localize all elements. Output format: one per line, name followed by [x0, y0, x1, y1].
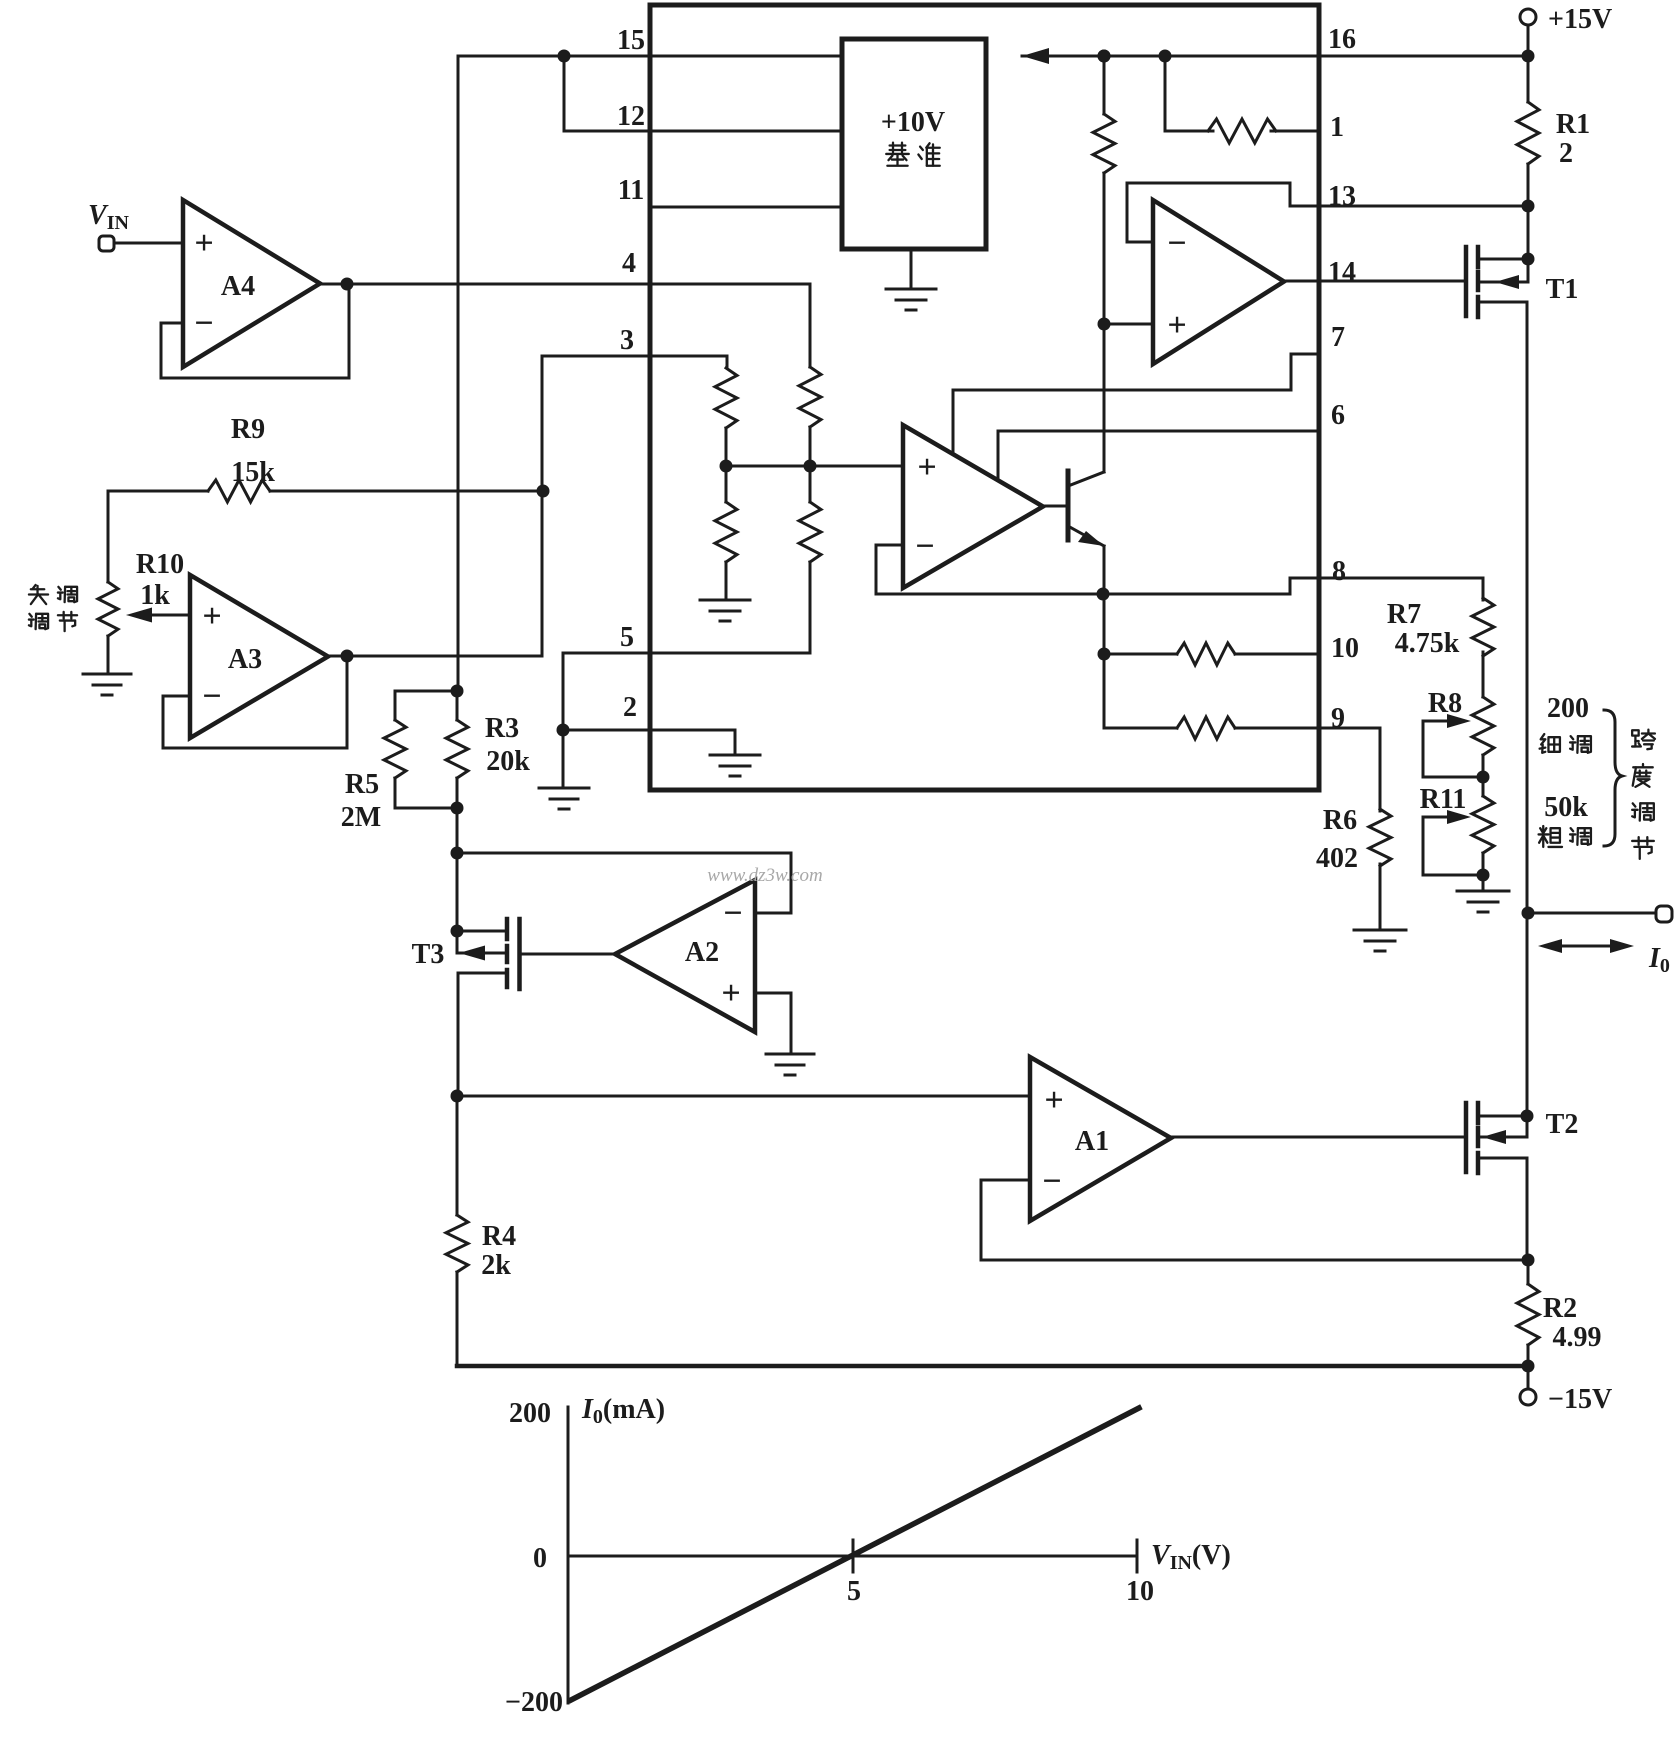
R11 wiper	[1423, 810, 1483, 875]
wire A4 output row (pin 4 net)	[320, 283, 810, 286]
resistor R1	[1517, 102, 1539, 164]
svg-text:A1: A1	[1075, 1126, 1109, 1157]
wire pin 11 row	[650, 206, 842, 209]
svg-text:R10: R10	[136, 549, 184, 580]
wire T2 source	[1478, 1158, 1527, 1260]
svg-text:−: −	[202, 678, 221, 715]
wire R9 right to node	[270, 490, 543, 493]
pin 16 label	[1328, 24, 1356, 55]
wire R2 top	[1527, 1260, 1530, 1284]
T1 body arrow	[1478, 275, 1528, 289]
svg-text:10: 10	[1331, 633, 1359, 664]
wire R4 top	[456, 1096, 459, 1215]
label R5	[345, 769, 379, 800]
resistor internal (pin 10)	[1177, 643, 1235, 665]
op-amp A2	[615, 880, 755, 1032]
label R4 value 2k	[481, 1250, 511, 1281]
graph tick 10	[1136, 1540, 1139, 1572]
junction error amp + input	[1098, 318, 1111, 331]
junction pin16-pin1	[1159, 50, 1172, 63]
wire pin 7 net	[953, 354, 1319, 452]
svg-text:12: 12	[617, 101, 645, 132]
svg-text:15k: 15k	[231, 457, 275, 488]
wire T1 drain stub	[1478, 258, 1528, 261]
ground (R6)	[1354, 930, 1406, 951]
svg-text:2: 2	[623, 692, 637, 723]
svg-text:R11: R11	[1420, 784, 1467, 815]
wire R6 ground stub	[1379, 864, 1382, 928]
svg-text:−200: −200	[505, 1687, 563, 1718]
wire upper op-amp feedback	[1127, 183, 1290, 242]
wire pin 1 branch	[1165, 56, 1213, 131]
op-amp A3	[190, 575, 328, 738]
svg-text:50k: 50k	[1544, 792, 1588, 823]
label R1	[1556, 109, 1590, 140]
junction pin16-busA	[1098, 50, 1111, 63]
wire A3 output to pin3 riser	[328, 356, 727, 656]
label R10	[136, 549, 184, 580]
pin 5 label	[620, 622, 634, 653]
T2 body arrow	[1478, 1130, 1527, 1144]
pin 4 label	[622, 248, 636, 279]
junction pin 13 node	[1522, 200, 1535, 213]
label ji-zhun (reference)	[886, 143, 940, 166]
svg-text:20k: 20k	[486, 746, 530, 777]
resistor R4	[446, 1215, 468, 1272]
wire A4 feedback	[161, 284, 349, 378]
svg-text:VIN: VIN	[88, 200, 129, 234]
svg-text:−: −	[915, 528, 934, 565]
ground (internal divider)	[700, 600, 750, 621]
svg-text:−15V: −15V	[1548, 1384, 1612, 1415]
wire pin 8 row	[876, 578, 1483, 594]
wire pin 9 row	[1104, 727, 1177, 730]
wire A1 + row	[457, 1095, 1030, 1098]
wire pin 8 to R7	[1482, 578, 1485, 600]
pin 14 label	[1328, 257, 1356, 288]
wire A1 feedback	[981, 1180, 1528, 1260]
op-amp A1	[1030, 1057, 1171, 1221]
terminal -15V	[1520, 1389, 1536, 1405]
junction pin 2 node	[557, 724, 570, 737]
pin 2 label	[623, 692, 637, 723]
label I0	[1648, 943, 1670, 977]
wire +10V ref ground stub	[910, 249, 913, 288]
wire pin2 node ground stub	[562, 730, 565, 787]
svg-text:A3: A3	[228, 644, 262, 675]
resistor R9	[208, 480, 270, 502]
svg-text:R1: R1	[1556, 109, 1590, 140]
junction R8 bottom	[1477, 771, 1490, 784]
wire T1 source	[1478, 302, 1527, 912]
op-amp internal error amplifier	[903, 425, 1043, 588]
svg-text:2M: 2M	[341, 802, 381, 833]
ground (pin 2 right)	[710, 755, 760, 776]
svg-text:4: 4	[622, 248, 636, 279]
graph label 10	[1126, 1576, 1154, 1607]
svg-text:R3: R3	[485, 713, 519, 744]
wire R3 to A2 node	[456, 691, 459, 953]
ground (+10V ref)	[886, 289, 936, 310]
svg-text:T2: T2	[1546, 1109, 1579, 1140]
graph tick 5	[852, 1540, 855, 1572]
pin 12 label	[617, 101, 645, 132]
junction node row right	[804, 460, 817, 473]
label R6 value 402	[1316, 843, 1358, 874]
wire R8-R11	[1482, 755, 1485, 796]
graph label 0	[533, 1543, 547, 1574]
junction pin15-pin12	[558, 50, 571, 63]
label R6	[1323, 805, 1357, 836]
graph label 200	[509, 1398, 551, 1429]
wire R4 to bottom rail	[456, 1272, 459, 1366]
wire pin 14 row	[1284, 280, 1466, 283]
resistor internal (pin 1)	[1208, 119, 1276, 143]
resistor internal (top)	[1093, 114, 1115, 173]
svg-text:I0: I0	[1648, 943, 1670, 977]
svg-text:4.75k: 4.75k	[1395, 628, 1460, 659]
terminal I0	[1656, 906, 1672, 922]
pin 6 label	[1331, 400, 1345, 431]
wire A2 top loop	[457, 853, 791, 913]
svg-text:−: −	[194, 305, 213, 342]
terminal VIN	[99, 236, 114, 251]
junction R3 top	[451, 685, 464, 698]
potentiometer R11	[1472, 796, 1494, 853]
svg-text:16: 16	[1328, 24, 1356, 55]
junction T3 drain	[451, 925, 464, 938]
svg-text:11: 11	[618, 175, 644, 206]
wire R5 branch top	[395, 691, 457, 720]
wire R1 top	[1527, 56, 1530, 102]
wire pin 9 to edge	[1235, 727, 1319, 730]
wire right lower resistor to pin 5	[563, 466, 810, 653]
terminal +15V	[1520, 9, 1536, 25]
pin 1 label	[1330, 112, 1344, 143]
resistor internal (pin 9)	[1177, 717, 1235, 739]
wire A1 out to T2 gate	[1171, 1136, 1466, 1139]
wire T3 drain	[456, 930, 507, 933]
wire T1 drain riser	[1527, 206, 1530, 282]
label R11	[1420, 784, 1467, 815]
ground (pin 2 node)	[539, 788, 589, 809]
resistor R2	[1517, 1284, 1539, 1345]
wire pin 16 row	[1022, 55, 1528, 58]
svg-text:2k: 2k	[481, 1250, 511, 1281]
svg-text:R6: R6	[1323, 805, 1357, 836]
resistor internal (pin 3 upper)	[715, 368, 737, 428]
resistor R6	[1369, 809, 1391, 866]
svg-text:R9: R9	[231, 414, 265, 445]
graph transfer line	[571, 1408, 1139, 1700]
svg-text:14: 14	[1328, 257, 1356, 288]
label cutiao (coarse adjust)	[1539, 826, 1591, 847]
svg-text:I0(mA): I0(mA)	[581, 1394, 665, 1428]
T3 body arrow	[457, 946, 507, 961]
R8 wiper	[1423, 714, 1483, 777]
junction A4 output	[341, 278, 354, 291]
svg-text:402: 402	[1316, 843, 1358, 874]
svg-text:−: −	[1042, 1163, 1061, 1200]
wire R7 to R8	[1482, 652, 1485, 697]
svg-text:R7: R7	[1387, 599, 1421, 630]
svg-text:6: 6	[1331, 400, 1345, 431]
svg-text:R4: R4	[482, 1221, 516, 1252]
label 200	[1547, 693, 1589, 724]
svg-text:A4: A4	[221, 271, 255, 302]
label R2 value 4.99	[1553, 1322, 1602, 1353]
svg-text:1k: 1k	[140, 580, 170, 611]
pin 7 label	[1331, 322, 1345, 353]
pin 11 label	[618, 175, 644, 206]
wire bottom rail	[457, 1364, 1528, 1369]
wire pin3 riser	[726, 356, 729, 368]
potentiometer R8	[1472, 697, 1494, 755]
junction R11 bottom	[1477, 869, 1490, 882]
junction pin 10 node	[1098, 648, 1111, 661]
brace span-adjust	[1604, 710, 1622, 846]
wire left bus vertical	[457, 56, 460, 691]
label R2	[1543, 1293, 1577, 1324]
svg-text:7: 7	[1331, 322, 1345, 353]
wire R5 branch bottom	[395, 778, 457, 808]
wire pin 13 row	[1290, 205, 1528, 208]
svg-text:5: 5	[847, 1576, 861, 1607]
svg-text:T1: T1	[1546, 274, 1579, 305]
label R9	[231, 414, 265, 445]
R10 wiper arrow	[126, 608, 190, 623]
label T3	[412, 939, 445, 970]
wire I0 output	[1528, 912, 1656, 915]
+10V reference block	[842, 39, 986, 249]
graph Y axis	[567, 1407, 570, 1703]
ground (A2 +)	[766, 1054, 814, 1075]
junction R5 bottom	[451, 802, 464, 815]
label R4	[482, 1221, 516, 1252]
svg-text:1: 1	[1330, 112, 1344, 143]
label R10 value 1k	[140, 580, 170, 611]
junction A2 branch	[451, 847, 464, 860]
pin 15 label	[617, 25, 645, 56]
resistor R5	[384, 720, 406, 778]
wire R1 bottom	[1527, 164, 1530, 206]
wire R2 bottom	[1527, 1345, 1530, 1366]
wire error amp feedback	[876, 545, 903, 594]
svg-text:+10V: +10V	[881, 107, 945, 138]
label +10V	[881, 107, 945, 138]
label 50k	[1544, 792, 1588, 823]
wire A3 feedback	[163, 657, 347, 748]
ground (R11)	[1457, 891, 1509, 912]
label T2	[1546, 1109, 1579, 1140]
svg-text:−: −	[1167, 225, 1186, 262]
junction T1 drain	[1522, 253, 1535, 266]
wire upper resistors to node row	[726, 427, 810, 466]
svg-text:200: 200	[509, 1398, 551, 1429]
wire -15V stub	[1527, 1366, 1530, 1389]
transistor internal Q1	[1043, 471, 1104, 546]
junction A3 output	[341, 650, 354, 663]
label shidiao (offset)	[29, 585, 77, 604]
label xitiao (fine adjust)	[1540, 734, 1591, 753]
pin 10 label	[1331, 633, 1359, 664]
junction R9/pin3 node	[537, 485, 550, 498]
label R3	[485, 713, 519, 744]
graph label I0(mA)	[581, 1394, 665, 1428]
watermark	[707, 865, 822, 886]
wire R9 left	[108, 491, 208, 582]
svg-text:2: 2	[1559, 138, 1573, 169]
graph label 5	[847, 1576, 861, 1607]
svg-text:5: 5	[620, 622, 634, 653]
label R9 value 15k	[231, 457, 275, 488]
op-amp A4	[183, 200, 320, 367]
wire pin 15 row	[458, 55, 842, 58]
junction bottom rail right	[1522, 1360, 1535, 1373]
wire pin 2 row	[563, 730, 735, 753]
wire pin5/pin2 drop	[562, 653, 565, 730]
IC U1 boundary box	[650, 5, 1319, 790]
pin 3 label	[620, 325, 634, 356]
wire T2 drain riser	[1526, 913, 1529, 1137]
svg-text:A2: A2	[685, 937, 719, 968]
graph X axis	[568, 1555, 1137, 1558]
potentiometer R10	[98, 582, 118, 636]
wire pin 10 row	[1104, 653, 1177, 656]
junction R2 top (feedback node)	[1522, 1254, 1535, 1267]
label R5 value 2M	[341, 802, 381, 833]
svg-text:10: 10	[1126, 1576, 1154, 1607]
junction pin8 row	[1097, 588, 1110, 601]
label VIN	[88, 200, 129, 234]
svg-text:+: +	[917, 449, 936, 486]
svg-text:15: 15	[617, 25, 645, 56]
junction T2 drain	[1521, 1110, 1534, 1123]
arrow pin 16 row	[1022, 48, 1049, 64]
wire pin 6 net	[998, 431, 1319, 480]
graph label VIN(V)	[1151, 1540, 1231, 1574]
wire left lower resistor	[725, 466, 728, 598]
label tiaojie (adjust)	[29, 612, 77, 631]
wire pin4 riser	[809, 284, 812, 367]
wire internal bus vertical	[1103, 56, 1106, 728]
label R7 value 4.75k	[1395, 628, 1460, 659]
svg-text:−: −	[723, 895, 742, 932]
op-amp internal (pins 13/14)	[1153, 200, 1284, 364]
wire A2 + to ground	[755, 993, 791, 1052]
wire T3 source	[458, 973, 507, 1096]
wire VIN to A4+	[114, 242, 183, 245]
transistor T3	[507, 919, 520, 989]
wire pin 1 to edge	[1271, 130, 1319, 133]
label R8	[1428, 688, 1462, 719]
svg-text:3: 3	[620, 325, 634, 356]
svg-text:R5: R5	[345, 769, 379, 800]
wire R10 bottom	[107, 636, 110, 672]
resistor internal (pin 4 upper)	[799, 367, 821, 427]
svg-text:0: 0	[533, 1543, 547, 1574]
label -15V	[1548, 1384, 1612, 1415]
wire A2 out to T3 gate	[521, 953, 615, 956]
label R7	[1387, 599, 1421, 630]
label +15V	[1548, 4, 1612, 35]
label kuadu-tiaojie (span adjust)	[1632, 730, 1655, 859]
pin 13 label	[1328, 181, 1356, 212]
svg-text:+: +	[202, 598, 221, 635]
svg-text:8: 8	[1332, 556, 1346, 587]
ground (R10)	[83, 674, 131, 695]
svg-text:4.99: 4.99	[1553, 1322, 1602, 1353]
wire pin 9 to R6	[1319, 728, 1380, 811]
svg-text:VIN(V): VIN(V)	[1151, 1540, 1231, 1574]
pin 8 label	[1332, 556, 1346, 587]
svg-text:R2: R2	[1543, 1293, 1577, 1324]
wire R11 ground stub	[1482, 853, 1485, 890]
label T1	[1546, 274, 1579, 305]
junction I0 node	[1522, 907, 1535, 920]
wire upper op-amp + input	[1104, 323, 1153, 326]
svg-text:+: +	[1167, 307, 1186, 344]
wire pin 10 to edge	[1235, 653, 1319, 656]
wire node row to error amp +	[726, 465, 903, 468]
svg-text:www.dz3w.com: www.dz3w.com	[707, 865, 822, 886]
wire T2 drain stub	[1478, 1115, 1527, 1118]
svg-text:R8: R8	[1428, 688, 1462, 719]
wire +15V stub	[1527, 25, 1530, 56]
transistor T2	[1466, 1103, 1478, 1173]
resistor internal (left lower)	[715, 502, 737, 562]
wire pin 12 branch	[564, 56, 842, 131]
label R3 value 20k	[486, 746, 530, 777]
graph label -200	[505, 1687, 563, 1718]
svg-text:+: +	[1044, 1082, 1063, 1119]
svg-text:200: 200	[1547, 693, 1589, 724]
I0 double arrow	[1538, 939, 1634, 953]
junction A1 + node	[451, 1090, 464, 1103]
junction node row left	[720, 460, 733, 473]
label R1 value 2	[1559, 138, 1573, 169]
svg-text:+: +	[194, 225, 213, 262]
junction internal bus top	[1098, 50, 1111, 63]
resistor R7	[1472, 598, 1494, 656]
resistor R3	[446, 720, 468, 778]
svg-text:+15V: +15V	[1548, 4, 1612, 35]
transistor T1	[1466, 247, 1478, 317]
svg-text:T3: T3	[412, 939, 445, 970]
pin 9 label	[1331, 703, 1345, 734]
svg-text:+: +	[721, 975, 740, 1012]
junction +15V node	[1522, 50, 1535, 63]
resistor internal (right lower)	[799, 502, 821, 562]
